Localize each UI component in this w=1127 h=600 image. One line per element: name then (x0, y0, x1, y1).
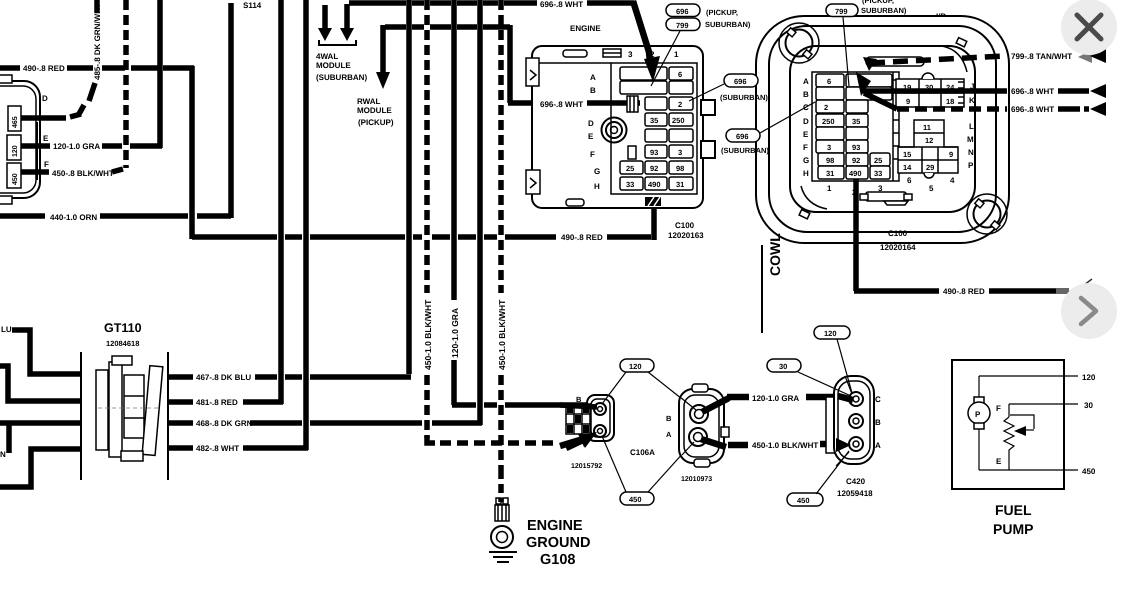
svg-text:12015792: 12015792 (571, 463, 602, 470)
oval 799 (top pair) (666, 18, 700, 31)
wire 696-.8 WHT (dashed) (864, 93, 897, 109)
svg-text:92: 92 (852, 156, 860, 165)
top-right corner arcs (942, 46, 967, 72)
bottom-right ear (967, 194, 1007, 234)
vertical wire x=454 (120-1.0 GRA) (451, 0, 457, 405)
svg-text:(SUBURBAN): (SUBURBAN) (721, 146, 769, 155)
svg-text:31: 31 (676, 180, 684, 189)
svg-text:120: 120 (629, 362, 642, 371)
svg-text:6: 6 (907, 176, 912, 185)
svg-text:482-.8 WHT: 482-.8 WHT (196, 444, 239, 453)
I/P row F cells 3 93 (816, 140, 844, 153)
svg-text:93: 93 (852, 143, 860, 152)
engine ground lead dashes (498, 470, 504, 502)
wire 468-.8 DK GRN (168, 420, 193, 426)
wire 450 BLK/WHT dashed horizontal to C106A pin A (427, 436, 435, 443)
4WAL MODULE arrows (322, 5, 328, 30)
wire 450-1.0 BLK/WHT arrow into pin A of 12015792 (566, 440, 583, 448)
wire 482-.8 WHT (168, 445, 193, 451)
row H cells 33 490 31 (620, 177, 643, 190)
svg-text:E: E (803, 130, 809, 139)
svg-text:696: 696 (676, 7, 689, 16)
svg-text:G108: G108 (540, 552, 575, 568)
wire 120-1.0 GRA horizontal to C106A pin B (452, 402, 476, 408)
svg-text:490-.8 RED: 490-.8 RED (943, 287, 985, 296)
svg-text:F: F (996, 404, 1001, 413)
fuel pump wire 120 (979, 375, 1078, 377)
I/P C100 connector pillow shell (756, 16, 1009, 243)
svg-text:A: A (803, 77, 809, 86)
svg-text:98: 98 (826, 156, 834, 165)
wire 696 top horizontal y=3 (349, 0, 406, 6)
svg-text:799: 799 (835, 7, 848, 16)
connector 12010973 (679, 384, 729, 467)
oval 120 (C106A) (620, 359, 654, 372)
svg-text:F: F (590, 150, 595, 159)
wire 450-1.0 BLK/WHT (pigtail, dashed) (701, 439, 726, 447)
pin box 465 (8, 106, 21, 131)
svg-text:C100: C100 (675, 221, 695, 230)
svg-text:A: A (590, 73, 596, 82)
vertical wire x=281 (481 RED riser) (278, 0, 284, 404)
svg-text:33: 33 (626, 180, 634, 189)
svg-text:G: G (594, 167, 600, 176)
svg-text:250: 250 (822, 117, 835, 126)
fuel pump wire 450 (1008, 453, 1010, 470)
pin detail at engine C100 row C (627, 96, 638, 112)
I/P row D cells 250 35 (816, 114, 844, 127)
svg-text:120-1.0 GRA: 120-1.0 GRA (53, 142, 100, 151)
engine C100 pin grid frame (611, 63, 697, 194)
svg-text:98: 98 (676, 164, 684, 173)
svg-text:GROUND: GROUND (526, 535, 590, 551)
svg-text:B: B (875, 418, 881, 427)
svg-text:440-1.0 ORN: 440-1.0 ORN (50, 213, 97, 222)
svg-text:35: 35 (650, 116, 658, 125)
svg-text:120: 120 (12, 145, 19, 157)
heavy arrow into engine C100 row B (633, 1, 650, 62)
svg-text:696-.8 WHT: 696-.8 WHT (540, 0, 583, 9)
FUEL PUMP box (952, 360, 1064, 489)
svg-text:450: 450 (12, 173, 19, 185)
wire 696-.8 WHT (solid) with arrow into grid (856, 72, 871, 96)
top-left ear (779, 23, 819, 63)
svg-text:SUBURBAN): SUBURBAN) (705, 20, 751, 29)
svg-text:450-.8 BLK/WHT: 450-.8 BLK/WHT (52, 169, 114, 178)
I/P row B cells (816, 87, 844, 100)
leader line oval 696-2 to I/P grid (760, 102, 815, 133)
svg-text:6: 6 (827, 77, 831, 86)
svg-text:C106A: C106A (630, 448, 655, 457)
svg-text:25: 25 (874, 156, 882, 165)
leader line oval799 to I/P grid (843, 17, 849, 86)
svg-text:120: 120 (1082, 373, 1096, 382)
svg-text:25: 25 (626, 164, 634, 173)
svg-text:S114: S114 (243, 1, 262, 10)
svg-text:B: B (666, 414, 672, 423)
svg-text:ENGINE: ENGINE (527, 518, 583, 534)
bolt hole circles (602, 118, 627, 143)
svg-text:18: 18 (946, 97, 954, 106)
bottom-left corner arcs (801, 186, 827, 209)
svg-text:29: 29 (926, 163, 934, 172)
rotated label 450-1.0 BLK/WHT (x=501) (495, 293, 506, 371)
svg-text:LU: LU (1, 325, 12, 334)
svg-text:9: 9 (906, 97, 910, 106)
svg-text:120-1.0 GRA: 120-1.0 GRA (752, 394, 799, 403)
svg-text:F: F (803, 143, 808, 152)
svg-text:35: 35 (852, 117, 860, 126)
svg-text:696-.8 WHT: 696-.8 WHT (540, 100, 583, 109)
svg-text:MODULE: MODULE (357, 106, 392, 115)
svg-text:799: 799 (676, 21, 689, 30)
svg-text:B: B (576, 395, 582, 404)
bottom slots (866, 192, 906, 201)
svg-text:12020163: 12020163 (668, 231, 704, 240)
oval 120 (C420 top) (814, 326, 850, 339)
ring terminal G108 (491, 498, 513, 548)
svg-text:E: E (43, 134, 49, 143)
svg-text:1: 1 (827, 184, 832, 193)
svg-text:B: B (590, 86, 596, 95)
svg-text:490: 490 (849, 169, 862, 178)
dashed vertical wire x=427 (450-1.0 BLK/WHT) (424, 0, 430, 438)
svg-text:30: 30 (1084, 401, 1093, 410)
svg-text:L: L (969, 122, 974, 131)
svg-text:465: 465 (12, 116, 19, 128)
engine C100 connector shell (526, 46, 715, 208)
svg-text:(PICKUP): (PICKUP) (358, 118, 394, 127)
cowl line (761, 245, 763, 333)
svg-text:92: 92 (650, 164, 658, 173)
svg-text:3: 3 (827, 143, 831, 152)
svg-text:33: 33 (874, 169, 882, 178)
svg-text:H: H (594, 182, 600, 191)
leader lines to C420 pins (845, 376, 852, 394)
svg-text:490-.8 RED: 490-.8 RED (561, 233, 603, 242)
row D cells 35 250 (645, 113, 667, 126)
svg-text:E: E (996, 457, 1002, 466)
svg-text:5: 5 (929, 184, 934, 193)
svg-text:799-.8 TAN/WHT: 799-.8 TAN/WHT (1011, 52, 1072, 61)
pump motor symbol (968, 376, 990, 470)
svg-text:ENGINE: ENGINE (570, 24, 601, 33)
wire 490 up into engine C100 cell with arrowhead (651, 190, 657, 240)
svg-text:30: 30 (779, 362, 787, 371)
RWAL MODULE arrow and wire y=27 (385, 24, 406, 30)
wiper arrow (1010, 415, 1034, 429)
svg-text:1: 1 (674, 50, 679, 59)
wire 120-1.0 GRA into C420 pin C (838, 396, 853, 400)
svg-text:N: N (0, 450, 6, 459)
svg-text:12: 12 (925, 136, 933, 145)
rotated label 120-1.0 GRA (x=454) (448, 300, 459, 360)
svg-text:P: P (975, 410, 981, 419)
pin box 120 (7, 135, 21, 160)
svg-text:(SUBURBAN): (SUBURBAN) (316, 73, 367, 82)
svg-text:P: P (968, 161, 974, 170)
vertical wire x=306 (482 WHT riser) (303, 0, 309, 450)
leader lines to pins B/A of 12010973 (680, 397, 696, 410)
connector C420 (826, 376, 874, 464)
wire 440-1.0 ORN (0, 213, 45, 219)
vertical wire x=480 (468 riser) (477, 0, 483, 425)
wire into GT110 (second) (0, 366, 81, 401)
svg-text:(SUBURBAN): (SUBURBAN) (720, 93, 768, 102)
svg-text:D: D (42, 94, 48, 103)
svg-text:450-1.0 BLK/WHT: 450-1.0 BLK/WHT (423, 299, 433, 370)
row B cells (620, 81, 667, 94)
svg-text:H: H (803, 169, 809, 178)
svg-text:3: 3 (628, 50, 633, 59)
svg-text:4WAL: 4WAL (316, 52, 338, 61)
connector 12015792 (566, 395, 614, 441)
oval 696 (SUBURBAN) upper right (724, 74, 758, 87)
svg-text:12010973: 12010973 (681, 476, 712, 483)
svg-text:4: 4 (950, 176, 955, 185)
svg-text:K: K (969, 96, 975, 105)
leader line oval799 to grid (651, 31, 680, 86)
svg-text:D: D (803, 117, 809, 126)
wire 799-.8 TAN/WHT (slanted dashes) (866, 57, 924, 66)
wire 120-1.0 GRA (pigtail) (702, 398, 729, 412)
svg-text:450-1.0 BLK/WHT: 450-1.0 BLK/WHT (752, 441, 818, 450)
I/P row C cells, cell 2 (816, 100, 844, 113)
oval 30 (767, 359, 801, 372)
svg-text:467-.8 DK BLU: 467-.8 DK BLU (196, 373, 251, 382)
svg-text:450: 450 (797, 496, 810, 505)
wire into GT110 (third) (0, 420, 81, 426)
4WAL bracket (319, 40, 356, 45)
J/K pin grid (896, 73, 964, 107)
oval 450 (C420 bottom) (787, 493, 823, 506)
wire 481-.8 RED (168, 399, 193, 405)
svg-text:C100: C100 (888, 229, 908, 238)
connector (left edge, partial) outer shell (0, 75, 40, 204)
dashed vertical wire x=126 (123, 0, 129, 168)
wire 490-.8 RED (I/P side) (853, 179, 859, 291)
wire 490 RED vertical x=192 and long horizontal y=237 (189, 66, 195, 239)
I/P row E cells (816, 127, 844, 140)
svg-text:F: F (44, 160, 49, 169)
ground symbol (489, 551, 517, 553)
wire 450-1.0 BLK/WHT arrow into C420 pin A (836, 438, 851, 452)
svg-text:2: 2 (824, 103, 828, 112)
svg-text:M: M (967, 135, 974, 144)
svg-text:481-.8 RED: 481-.8 RED (196, 398, 238, 407)
pin box 450 (7, 163, 21, 188)
svg-text:12084618: 12084618 (106, 339, 139, 348)
svg-text:COWL: COWL (767, 233, 783, 276)
svg-text:G: G (803, 156, 809, 165)
svg-text:12059418: 12059418 (837, 489, 873, 498)
svg-text:2: 2 (678, 100, 682, 109)
svg-text:450: 450 (629, 495, 642, 504)
oval 696 (SUBURBAN) lower right (726, 129, 760, 142)
svg-text:E: E (588, 132, 594, 141)
svg-text:PUMP: PUMP (993, 521, 1033, 537)
wire 467-.8 DK BLU (168, 374, 193, 380)
svg-text:A: A (875, 441, 881, 450)
oval 450 (C106A) (620, 492, 654, 505)
close button (1061, 0, 1117, 55)
sender resistor (1008, 404, 1010, 417)
oval 696 (top pair) (666, 4, 700, 17)
svg-text:A: A (666, 430, 672, 439)
svg-text:250: 250 (672, 116, 685, 125)
svg-text:N: N (968, 148, 974, 157)
svg-text:468-.8 DK GRN: 468-.8 DK GRN (196, 419, 253, 428)
L/M/N/P pin grid (898, 120, 958, 178)
row G cells 25 92 98 (620, 161, 643, 174)
svg-text:490: 490 (648, 180, 661, 189)
svg-text:490-.8 RED: 490-.8 RED (23, 64, 65, 73)
svg-text:C: C (875, 395, 881, 404)
wire 120-1.0 GRA into pin B of 12015792 (560, 405, 597, 407)
svg-text:93: 93 (650, 148, 658, 157)
svg-text:SUBURBAN): SUBURBAN) (861, 6, 907, 15)
next button (1061, 283, 1117, 339)
svg-text:RWAL: RWAL (357, 97, 381, 106)
svg-text:C420: C420 (846, 477, 866, 486)
svg-text:C: C (803, 103, 809, 112)
diamond leader lines (602, 372, 626, 404)
I/P row A cells, cell 6 (816, 74, 844, 87)
svg-text:12020164: 12020164 (880, 243, 916, 252)
svg-text:696-.8 WHT: 696-.8 WHT (1011, 87, 1054, 96)
row A cells, cell 6 (620, 67, 667, 80)
svg-text:31: 31 (826, 169, 834, 178)
svg-text:B: B (803, 90, 809, 99)
svg-text:6: 6 (678, 70, 682, 79)
row E cells (645, 129, 667, 142)
vertical wire at x=160 (157, 0, 163, 148)
svg-text:14: 14 (903, 163, 912, 172)
svg-text:3: 3 (678, 148, 682, 157)
rotated label 450-1.0 BLK/WHT (x=427) (421, 293, 432, 371)
svg-text:696: 696 (734, 77, 747, 86)
svg-text:120: 120 (824, 329, 837, 338)
I/P row G cells 98 92 25 (818, 153, 844, 166)
svg-text:(PICKUP,: (PICKUP, (862, 0, 894, 5)
svg-text:696: 696 (736, 132, 749, 141)
row C cells, cell 2 (645, 97, 667, 110)
svg-text:9: 9 (949, 150, 953, 159)
svg-text:120-1.0 GRA: 120-1.0 GRA (450, 308, 460, 358)
I/P main pin grid frame (812, 72, 899, 181)
dashed vertical wire x=501 (450-1.0 BLK/WHT to ground) (498, 0, 504, 470)
oval 799 (I/P side) (826, 4, 858, 17)
row F cells 93 3, pin (628, 146, 636, 159)
svg-text:450-1.0 BLK/WHT: 450-1.0 BLK/WHT (497, 299, 507, 370)
fuel pump wire 30 (1009, 403, 1078, 405)
wire 490-.8 RED (upper left) (0, 65, 20, 71)
svg-text:450: 450 (1082, 467, 1096, 476)
wire 696 corner down to second label (507, 25, 513, 103)
svg-text:15: 15 (903, 150, 911, 159)
svg-text:MODULE: MODULE (316, 61, 351, 70)
svg-text:D: D (588, 119, 594, 128)
svg-text:FUEL: FUEL (995, 502, 1032, 518)
svg-text:11: 11 (923, 123, 931, 132)
svg-text:GT110: GT110 (104, 321, 142, 335)
I/P row H cells 31 490 33 (818, 166, 844, 179)
svg-text:485-.8 DK GRN/WHT: 485-.8 DK GRN/WHT (93, 3, 102, 80)
svg-text:(PICKUP,: (PICKUP, (706, 8, 738, 17)
svg-text:696-.8 WHT: 696-.8 WHT (1011, 105, 1054, 114)
vertical wire x=409 (406, 0, 412, 374)
